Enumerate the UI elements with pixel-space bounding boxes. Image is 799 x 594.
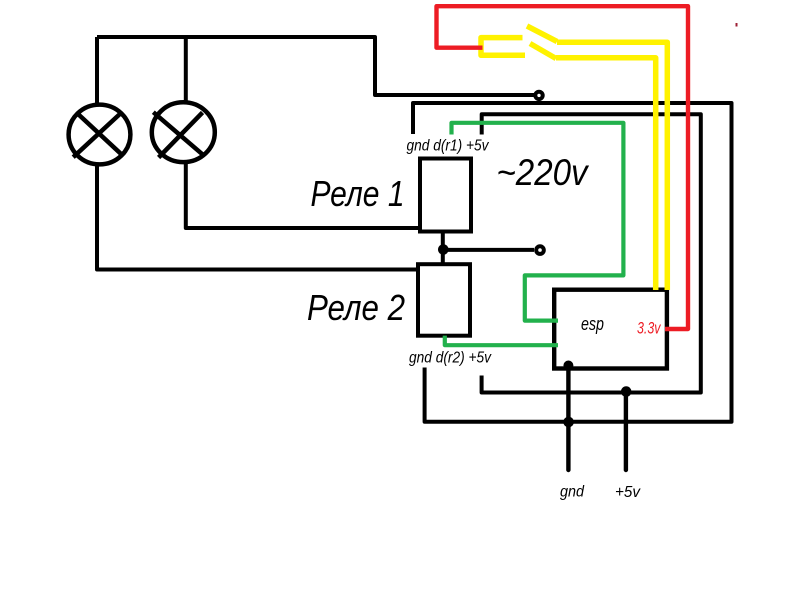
svg-text:+5v: +5v <box>615 484 641 501</box>
wire yellow upper to esp <box>557 42 667 290</box>
wire yellow lower to esp <box>556 58 656 290</box>
wire: relay1 to relay2 <box>441 232 445 265</box>
wire green d(r1) from relay1 to esp <box>452 123 624 321</box>
svg-text:3.3v: 3.3v <box>637 319 662 338</box>
svg-text:esp: esp <box>581 314 604 334</box>
svg-text:gnd d(r1) +5v: gnd d(r1) +5v <box>407 138 490 155</box>
esp module U1 box <box>554 290 667 369</box>
wire: gnd net (relay1 gnd pin, right rail, bottom rail, relay2 gnd pin) <box>413 103 732 422</box>
svg-text:Реле 1: Реле 1 <box>311 173 405 214</box>
wire: lamp2 bottom lead to relay1 <box>186 163 421 228</box>
switch blade upper <box>527 26 557 42</box>
wire green d(r2) from relay2 to esp <box>445 336 558 346</box>
red speck <box>736 23 738 27</box>
wire: esp gnd lead down <box>566 366 570 471</box>
wire red 220v line to esp 3.3v <box>437 6 689 329</box>
open terminal ring <box>536 246 544 254</box>
wire: common tap to open terminal <box>443 248 534 252</box>
wire: lamp2 top lead <box>184 37 188 102</box>
wire: lamp top rail to node ring <box>97 37 536 95</box>
relay K1 box <box>420 159 471 232</box>
svg-text:~220v: ~220v <box>497 152 590 193</box>
svg-text:gnd: gnd <box>560 484 585 501</box>
wire: lamp1 top lead <box>95 37 99 104</box>
junction dot between relays <box>438 244 449 255</box>
relay K2 box <box>418 264 470 336</box>
svg-text:gnd d(r2) +5v: gnd d(r2) +5v <box>409 350 492 367</box>
junction dot +5v rail tap <box>621 386 632 397</box>
lamp HL2 <box>152 102 215 162</box>
junction dot esp gnd pin <box>563 361 573 371</box>
wire: +5v lead down <box>624 392 628 470</box>
lamp HL1 <box>69 105 131 165</box>
node A open ring on lamp rail <box>535 92 542 99</box>
wire: +5v net (relay1 +5v pin, rail, bottom rail, relay2 +5v pin) <box>482 114 701 392</box>
junction dot gnd rail crossing <box>563 417 574 428</box>
switch blade lower <box>530 44 556 59</box>
wire: lamp1 bottom lead to relay2 <box>97 166 419 270</box>
svg-text:Реле 2: Реле 2 <box>307 287 405 328</box>
wire yellow switch left pole <box>481 38 525 56</box>
